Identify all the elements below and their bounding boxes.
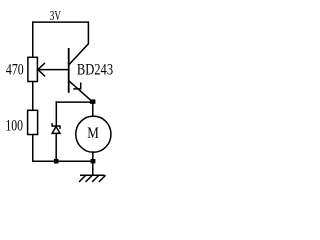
svg-text:M: M [87,123,99,142]
svg-text:470: 470 [6,60,24,79]
svg-text:100: 100 [5,116,23,135]
svg-text:3V: 3V [50,9,61,24]
svg-text:BD243: BD243 [77,60,113,79]
